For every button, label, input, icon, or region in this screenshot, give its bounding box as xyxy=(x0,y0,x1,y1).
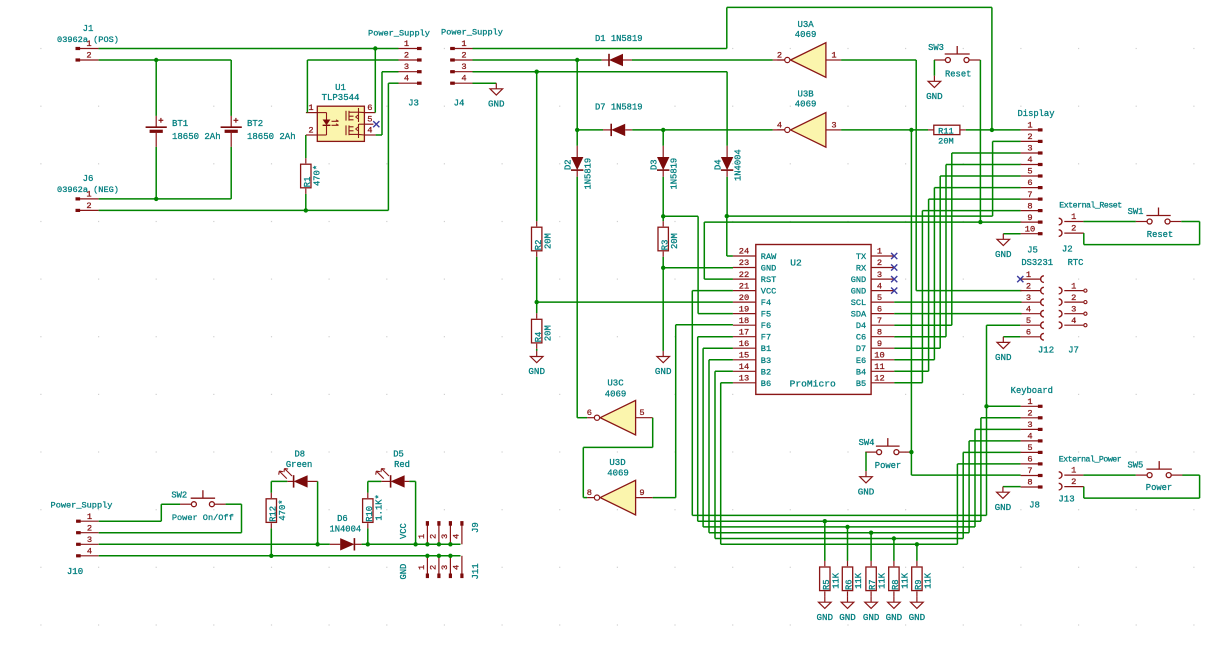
svg-text:J10: J10 xyxy=(67,567,83,577)
node SW4 junction xyxy=(909,450,913,454)
led D8 Green xyxy=(279,450,318,545)
ground J4.4 xyxy=(473,83,506,109)
svg-text:4: 4 xyxy=(452,534,462,539)
wire U2 pin to Keyboard4 xyxy=(709,360,1021,533)
connector Display pin 5 xyxy=(1021,167,1043,177)
svg-text:R4: R4 xyxy=(534,332,544,343)
inverter U3B xyxy=(785,90,826,148)
svg-text:TLP3544: TLP3544 xyxy=(322,93,360,103)
node R3 bottom junction xyxy=(661,266,665,270)
wire U2.23 GND xyxy=(663,267,733,269)
resistor R5 11K xyxy=(820,521,842,596)
svg-text:R8: R8 xyxy=(891,579,901,590)
wire J10.2 to SW2 xyxy=(99,504,242,533)
svg-text:1: 1 xyxy=(1071,281,1076,291)
U3A pin2 xyxy=(777,51,785,61)
mcu U2 pin 13 B6 xyxy=(733,374,771,389)
svg-text:D4: D4 xyxy=(856,321,866,331)
resistor R2 xyxy=(532,72,554,302)
label GND J11 xyxy=(399,564,409,580)
svg-text:TX: TX xyxy=(856,252,866,262)
wire U3C in to U3D out xyxy=(583,418,652,498)
connector J1 pin 2 xyxy=(76,51,99,61)
svg-text:7: 7 xyxy=(1027,466,1032,476)
svg-text:J2: J2 xyxy=(1062,245,1073,255)
U3C pin5 xyxy=(636,408,653,418)
svg-text:8: 8 xyxy=(587,488,592,498)
op U1 internal LED xyxy=(317,113,338,135)
optocoupler U1 body xyxy=(317,83,364,141)
svg-text:2: 2 xyxy=(429,534,439,539)
connector Display pin 1 xyxy=(1021,121,1043,131)
wire U3D in to F6 xyxy=(653,325,733,498)
label J10 xyxy=(67,567,83,577)
svg-text:1: 1 xyxy=(1071,212,1076,222)
mcu U2 pin 15 B3 xyxy=(733,351,771,366)
wire F4 xyxy=(537,301,733,303)
svg-text:4: 4 xyxy=(404,74,409,84)
wire J4.2 to D1 xyxy=(473,59,602,61)
ground R6 xyxy=(839,597,856,623)
connector Display pin 6 xyxy=(1021,178,1043,188)
connector J10 pin 4 xyxy=(76,547,99,557)
mcu U2 pin 2 RX xyxy=(856,258,894,273)
svg-text:1.1K*: 1.1K* xyxy=(374,494,384,520)
diode D6 1N4004 xyxy=(329,514,361,551)
ground R7 xyxy=(863,597,880,623)
node RAW junction xyxy=(725,214,729,218)
diode D4 1N4004 xyxy=(714,146,744,216)
mcu U2 pin 18 F6 xyxy=(733,316,771,331)
node R2 top junction xyxy=(535,70,539,74)
connector J9 pin 2 xyxy=(429,521,442,546)
connector J10 pin 1 xyxy=(76,512,99,522)
connector J7 pin 4 xyxy=(1059,316,1087,329)
node R11 right junction xyxy=(990,128,994,132)
svg-text:B2: B2 xyxy=(761,367,771,377)
resistor R3 xyxy=(658,216,680,267)
svg-text:J6: J6 xyxy=(83,174,94,184)
wire J1.2 to BT2 xyxy=(99,59,232,61)
svg-text:18650 2Ah: 18650 2Ah xyxy=(247,132,296,142)
wire U1.4 to J3.3 xyxy=(376,72,399,135)
ground R3 xyxy=(655,268,672,377)
U3D pin9 xyxy=(636,488,653,498)
svg-text:4: 4 xyxy=(1026,304,1031,314)
mcu U2 pin 20 F4 xyxy=(733,293,771,308)
mcu U2 pin 14 B2 xyxy=(733,362,771,377)
svg-text:RST: RST xyxy=(761,275,776,285)
svg-text:22: 22 xyxy=(739,270,749,280)
connector J7 pin 1 xyxy=(1059,281,1087,294)
svg-text:6: 6 xyxy=(367,103,372,113)
connector J1 pin 1 xyxy=(76,39,99,49)
svg-text:SW1: SW1 xyxy=(1128,207,1144,217)
svg-text:7: 7 xyxy=(877,316,882,326)
svg-text:470*: 470* xyxy=(312,165,322,186)
label RTC xyxy=(1068,258,1084,268)
connector J9 pin 3 xyxy=(440,521,453,546)
svg-text:U3A: U3A xyxy=(797,20,814,30)
U3D pin8 xyxy=(587,488,595,498)
inverter U3C xyxy=(594,379,635,436)
svg-text:18650 2Ah: 18650 2Ah xyxy=(172,132,221,142)
label J5 xyxy=(1027,246,1038,256)
svg-text:J13: J13 xyxy=(1058,495,1074,505)
svg-text:3: 3 xyxy=(877,270,882,280)
svg-text:SW3: SW3 xyxy=(928,43,944,53)
svg-text:SCL: SCL xyxy=(851,298,866,308)
svg-text:1: 1 xyxy=(308,103,313,113)
svg-text:GND: GND xyxy=(817,612,834,623)
svg-text:RTC: RTC xyxy=(1068,258,1084,268)
wire R11 to Display1 xyxy=(966,129,1021,131)
connector J10 pin 3 xyxy=(76,535,99,545)
svg-text:4: 4 xyxy=(777,120,782,130)
no-connect J5.1 xyxy=(1017,276,1023,282)
svg-text:F4: F4 xyxy=(761,298,771,308)
svg-text:J4: J4 xyxy=(454,99,465,109)
svg-text:2: 2 xyxy=(877,258,882,268)
wire U2 right pin to Display7 xyxy=(894,199,1020,371)
svg-text:B4: B4 xyxy=(856,367,866,377)
svg-text:SDA: SDA xyxy=(851,310,867,320)
wire SW4 left gnd xyxy=(858,452,875,497)
svg-text:1: 1 xyxy=(417,534,427,539)
diode D7 1N5819 xyxy=(577,103,642,137)
svg-text:SW4: SW4 xyxy=(859,438,875,448)
svg-text:20M: 20M xyxy=(543,233,553,249)
svg-text:11K: 11K xyxy=(878,572,888,589)
connector J2 pin 2 xyxy=(1059,224,1084,237)
svg-text:4: 4 xyxy=(461,74,466,84)
svg-text:Reset: Reset xyxy=(1147,230,1173,240)
svg-text:1: 1 xyxy=(1026,270,1031,280)
wire Display9 RST xyxy=(704,222,1020,279)
svg-text:18: 18 xyxy=(739,316,749,326)
svg-text:2: 2 xyxy=(429,565,439,570)
svg-text:3: 3 xyxy=(440,565,450,570)
connector J13 pin 1 xyxy=(1059,466,1084,479)
svg-text:2: 2 xyxy=(404,51,409,61)
svg-text:E6: E6 xyxy=(856,356,866,366)
inverter U3D xyxy=(594,458,635,515)
svg-text:5: 5 xyxy=(877,293,882,303)
wire D1 to U3A out xyxy=(632,59,785,61)
connector J3 pin 3 xyxy=(399,62,422,72)
wire U3A in xyxy=(841,60,1021,291)
node R7 junction xyxy=(869,531,873,535)
U3B pin4 xyxy=(777,120,785,130)
wire J3.2 to U1.1 xyxy=(307,60,398,113)
mcu U2 pin 9 D7 xyxy=(856,339,894,354)
mcu U2 pin 16 B1 xyxy=(733,339,771,354)
svg-text:Power_Supply: Power_Supply xyxy=(51,501,113,511)
wire SCL to J5.3 xyxy=(894,301,1021,303)
svg-text:D6: D6 xyxy=(337,514,348,524)
resistor R7 11K xyxy=(866,533,888,597)
label J2 xyxy=(1062,245,1073,255)
connector J5 pin 3 xyxy=(1020,293,1044,306)
svg-text:B6: B6 xyxy=(761,379,771,389)
ground Keyboard8 xyxy=(995,487,1021,513)
connector J11 pin 4 xyxy=(452,556,462,578)
node VCC keyboard junction xyxy=(984,404,988,408)
wire D2 chain top xyxy=(576,60,578,130)
svg-text:SW2: SW2 xyxy=(171,491,187,501)
svg-text:SW5: SW5 xyxy=(1127,461,1143,471)
svg-text:GND: GND xyxy=(839,612,856,623)
svg-text:R12: R12 xyxy=(268,506,278,522)
node R10 bottom junction xyxy=(366,542,370,546)
switch SW5 xyxy=(1127,461,1182,494)
connector Display pin 2 xyxy=(1021,132,1043,142)
U3B pin3 xyxy=(826,120,841,130)
svg-text:1: 1 xyxy=(86,39,91,49)
svg-text:J7: J7 xyxy=(1068,346,1079,356)
node R9 junction xyxy=(915,542,919,546)
svg-text:D7 1N5819: D7 1N5819 xyxy=(595,103,643,113)
svg-text:20: 20 xyxy=(739,293,749,303)
wire Keyboard7 SW4 xyxy=(911,130,1020,475)
svg-text:GND: GND xyxy=(399,564,409,580)
svg-text:GND: GND xyxy=(863,612,880,623)
ground Display10 xyxy=(995,234,1021,260)
wire D2 to U3C out xyxy=(577,417,587,419)
wire U2 right pin to Display8 xyxy=(894,211,1020,383)
svg-text:B3: B3 xyxy=(761,356,771,366)
svg-text:3: 3 xyxy=(87,535,92,545)
svg-text:1N5819: 1N5819 xyxy=(583,158,593,190)
svg-text:VCC: VCC xyxy=(761,287,776,297)
node R8 junction xyxy=(892,536,896,540)
connector J3 pin 1 xyxy=(399,39,422,49)
svg-text:24: 24 xyxy=(739,247,749,257)
connector Keyboard pin 3 xyxy=(1021,420,1043,430)
svg-text:Keyboard: Keyboard xyxy=(1011,386,1053,396)
node D7 left junction xyxy=(575,128,579,132)
connector J7 pin 2 xyxy=(1059,293,1087,306)
node D2 top junction xyxy=(575,58,579,62)
svg-text:4069: 4069 xyxy=(607,469,629,479)
svg-text:R7: R7 xyxy=(868,579,878,590)
switch SW2 xyxy=(171,490,233,523)
svg-text:BT1: BT1 xyxy=(172,119,188,129)
svg-text:6: 6 xyxy=(1027,455,1032,465)
diode D2 1N5819 xyxy=(564,130,594,418)
diode D1 1N5819 xyxy=(595,34,643,66)
node D8 branch junction xyxy=(315,542,319,546)
wire D7 to U3B out xyxy=(632,129,784,131)
svg-text:6: 6 xyxy=(877,304,882,314)
connector J1 labels xyxy=(57,24,119,45)
svg-text:5: 5 xyxy=(1026,316,1031,326)
no-connect U2 pin 1 xyxy=(891,253,897,259)
svg-text:GND: GND xyxy=(886,612,903,623)
wire J3.1 to U1.6 xyxy=(374,49,376,113)
svg-text:Display: Display xyxy=(1018,109,1055,119)
svg-text:D7: D7 xyxy=(856,344,866,354)
label J4 xyxy=(454,99,465,109)
svg-text:GND: GND xyxy=(995,249,1012,260)
svg-text:RAW: RAW xyxy=(761,252,777,262)
connector J4 pin 2 xyxy=(450,51,472,61)
ground R4 xyxy=(528,351,545,377)
svg-text:R1: R1 xyxy=(303,177,313,188)
connector Display pin 4 xyxy=(1021,155,1043,165)
op U1 pin 2 xyxy=(306,126,317,136)
mcu U2 pin 5 SCL xyxy=(851,293,894,308)
label J12 xyxy=(1038,346,1054,356)
wire J6.1 to batteries xyxy=(99,198,232,200)
svg-text:J5: J5 xyxy=(1027,246,1038,256)
wire J13.1 to SW5 xyxy=(1083,474,1135,476)
switch SW1 xyxy=(1128,207,1182,240)
svg-text:2: 2 xyxy=(87,523,92,533)
svg-text:GND: GND xyxy=(995,352,1012,363)
connector J10 pin 2 xyxy=(76,523,99,533)
mcu U2 body xyxy=(756,245,871,395)
node R12 bottom junction xyxy=(269,554,273,558)
svg-text:13: 13 xyxy=(739,374,749,384)
svg-text:8: 8 xyxy=(1027,478,1032,488)
svg-text:2: 2 xyxy=(777,51,782,61)
svg-text:5: 5 xyxy=(639,408,644,418)
op U1 pin 4 xyxy=(364,126,375,136)
battery BT2 xyxy=(221,60,296,199)
label J9 xyxy=(471,522,481,533)
mcu U2 pin 12 B5 xyxy=(856,374,894,389)
svg-text:R2: R2 xyxy=(534,240,544,251)
svg-text:External_Reset: External_Reset xyxy=(1059,201,1122,211)
svg-text:1N4004: 1N4004 xyxy=(329,525,361,535)
op U1 pin 1 xyxy=(306,103,317,113)
svg-text:GND: GND xyxy=(995,502,1012,513)
svg-text:F7: F7 xyxy=(761,333,771,343)
wire VCC U2.21 xyxy=(692,291,986,516)
wire D3 to F5 xyxy=(663,216,733,313)
svg-text:3: 3 xyxy=(1027,144,1032,154)
svg-text:Power: Power xyxy=(1146,483,1172,493)
node BT1 bottom junction xyxy=(154,197,158,201)
wire J6.2 to J3.4 xyxy=(99,83,399,210)
connector J4 pin 4 xyxy=(450,74,472,84)
no-connect U2 pin 2 xyxy=(891,264,897,270)
svg-text:1: 1 xyxy=(1027,397,1032,407)
wire SW3 left gnd xyxy=(926,60,943,102)
no-connect U2 pin 3 xyxy=(891,276,897,282)
label DS3231 xyxy=(1021,258,1053,268)
svg-text:20M: 20M xyxy=(938,137,953,147)
svg-text:U3D: U3D xyxy=(609,458,625,468)
connector Keyboard pin 8 xyxy=(1021,478,1043,488)
svg-text:2: 2 xyxy=(1071,224,1076,234)
mcu U2 pin 17 F7 xyxy=(733,327,771,342)
mcu U2 pin 1 TX xyxy=(856,247,894,262)
svg-text:4: 4 xyxy=(87,547,92,557)
label J3 xyxy=(408,99,419,109)
svg-text:D5: D5 xyxy=(393,450,404,460)
connector J5 pin 4 xyxy=(1020,304,1044,317)
wire U2 pin to Keyboard2 xyxy=(698,337,1021,522)
resistor R1 xyxy=(301,158,323,210)
svg-text:F5: F5 xyxy=(761,310,771,320)
svg-text:GND: GND xyxy=(851,287,866,297)
battery BT1 xyxy=(146,60,221,199)
mcu U2 pin 3 GND xyxy=(851,270,894,285)
svg-text:6: 6 xyxy=(1027,178,1032,188)
connector Display pin 9 xyxy=(1021,213,1043,223)
svg-text:GND: GND xyxy=(926,91,943,102)
ground R9 xyxy=(909,597,926,623)
wire J10.1 to SW2 xyxy=(99,504,181,521)
label J13 xyxy=(1058,495,1074,505)
svg-text:3: 3 xyxy=(1071,304,1076,314)
svg-text:3: 3 xyxy=(404,62,409,72)
wire U2 pin to Keyboard6 xyxy=(721,383,1021,545)
mcu U2 pin 4 GND xyxy=(851,281,894,296)
U3A pin1 xyxy=(826,51,841,61)
svg-text:RX: RX xyxy=(856,264,866,274)
wire U2 pin to Keyboard5 xyxy=(715,371,1021,538)
svg-text:GND: GND xyxy=(488,99,505,110)
svg-text:4: 4 xyxy=(367,126,372,136)
no-connect U2 pin 4 xyxy=(891,288,897,294)
svg-text:1: 1 xyxy=(404,39,409,49)
svg-text:2: 2 xyxy=(308,126,313,136)
mcu U2 pin 10 E6 xyxy=(856,351,894,366)
connector J11 pin 1 xyxy=(417,554,430,579)
svg-text:4069: 4069 xyxy=(795,30,817,40)
node R6 junction xyxy=(845,525,849,529)
wire Keyboard1 VCC xyxy=(987,405,1021,407)
svg-text:GND: GND xyxy=(851,275,866,285)
svg-text:5: 5 xyxy=(1027,443,1032,453)
node SW3-RST junction xyxy=(978,220,982,224)
node R2 bottom junction xyxy=(535,300,539,304)
svg-text:8: 8 xyxy=(877,327,882,337)
resistor R4 xyxy=(532,302,554,351)
wire Display2 RAW xyxy=(727,141,1021,216)
svg-text:11K: 11K xyxy=(924,572,934,589)
wire RAW to U2.24 xyxy=(727,216,733,256)
ground R5 xyxy=(817,597,834,623)
connector J9 pin 4 xyxy=(452,521,462,544)
connector J11 pin 2 xyxy=(429,554,442,579)
svg-text:6: 6 xyxy=(587,408,592,418)
label Display xyxy=(1018,109,1055,119)
svg-text:R3: R3 xyxy=(660,240,670,251)
switch SW3 xyxy=(928,43,980,80)
svg-text:D1 1N5819: D1 1N5819 xyxy=(595,34,643,44)
svg-text:20M: 20M xyxy=(670,233,680,249)
svg-text:2: 2 xyxy=(461,51,466,61)
connector J3 pin 4 xyxy=(399,74,422,84)
svg-text:8: 8 xyxy=(1027,201,1032,211)
svg-text:J9: J9 xyxy=(471,522,481,533)
svg-text:U3B: U3B xyxy=(797,90,814,100)
connector Display pin 7 xyxy=(1021,190,1043,200)
svg-text:4: 4 xyxy=(1027,432,1032,442)
svg-text:11K: 11K xyxy=(831,572,841,589)
svg-text:Reset: Reset xyxy=(945,70,971,80)
ground J5.6 xyxy=(995,337,1020,363)
svg-text:16: 16 xyxy=(739,339,749,349)
mcu U2 pin 11 B4 xyxy=(856,362,894,377)
svg-text:D4: D4 xyxy=(714,159,724,170)
resistor R6 11K xyxy=(842,527,864,597)
svg-text:2: 2 xyxy=(1071,293,1076,303)
